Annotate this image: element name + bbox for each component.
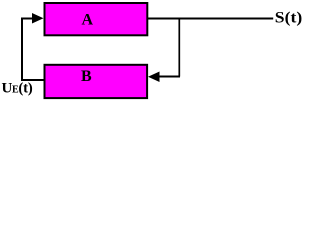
svg-text:B: B [81,68,92,85]
svg-text:S(t): S(t) [275,9,302,26]
block B [45,65,148,98]
svg-text:UE(t): UE(t) [2,81,33,97]
svg-text:A: A [82,12,94,29]
arrowhead into A [32,13,44,24]
wire: feedback left path from B output up to A input [22,19,45,81]
wire: feedback vertical from output node down [178,19,180,77]
wire: A output to S(t) [147,18,273,20]
arrowhead into B [148,72,160,83]
wire: feedback horizontal into B [159,76,180,78]
block A [45,3,148,35]
